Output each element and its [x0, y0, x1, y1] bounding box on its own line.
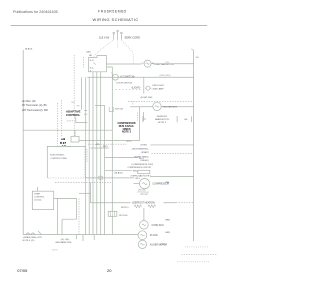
svg-text:07/05: 07/05 [17, 268, 28, 273]
svg-text:-(4)- -(B)-: -(4)- -(B)- [61, 239, 70, 241]
wire h193 [79, 192, 91, 194]
auger motor M6 [138, 240, 146, 248]
svg-text:(BLACK): (BLACK) [115, 172, 124, 175]
ground stubs below bus [76, 235, 94, 241]
svg-text:NOTE: NOTE [52, 249, 58, 251]
svg-text:OVERLOAD NOTE 1: OVERLOAD NOTE 1 [131, 174, 152, 177]
wire dashed vertical x57 [57, 103, 59, 146]
lamp DS1 [144, 85, 152, 94]
capacitor dashed lead [136, 113, 138, 122]
wire dashed freezer sensor [128, 100, 194, 102]
svg-text:B-PLUG: B-PLUG [115, 109, 123, 111]
svg-text:(TEST): (TEST) [141, 144, 148, 146]
wire x112 long drop [107, 67, 112, 235]
svg-text:BLACK: BLACK [25, 48, 33, 51]
middle prong dashed drop [117, 41, 119, 48]
svg-text:(START): (START) [141, 151, 149, 154]
wire h170 [105, 169, 132, 171]
wire drop right cord [132, 54, 134, 64]
compressor motor M3 [133, 179, 149, 189]
wire dashed right 202 [176, 201, 194, 203]
right bus top tick [191, 49, 193, 51]
wire dashed vertical x74 [73, 55, 75, 136]
svg-text:WIRING SCHEMATIC: WIRING SCHEMATIC [93, 17, 139, 22]
dashed corner drop [132, 101, 134, 105]
svg-text:5 6 7 8: 5 6 7 8 [67, 120, 73, 122]
wire h130 [23, 129, 112, 131]
svg-text:FRZ LIGHT: FRZ LIGHT [153, 85, 165, 87]
temperature control box U3 [32, 191, 53, 209]
wire lamp lead [143, 77, 145, 85]
svg-text:SERV CORD: SERV CORD [125, 36, 141, 40]
wire bottom bus [23, 234, 138, 236]
defrost timer box U2 [88, 56, 106, 72]
svg-text:FF FAN: FF FAN [150, 234, 158, 237]
wire h146 [67, 146, 72, 148]
dashed vertical x83 [83, 57, 85, 69]
wire heater run [91, 202, 177, 204]
wire h122 [76, 117, 88, 123]
wire dashed 153 [152, 152, 194, 154]
wire h178 [85, 177, 134, 179]
thermal fuse on bottom bus [26, 231, 41, 235]
fresh food fan motor M5 [138, 231, 147, 240]
pin ticks adaptive control [84, 111, 87, 115]
svg-text:CONTROL PWB: CONTROL PWB [50, 158, 67, 160]
svg-text:GRN: GRN [165, 220, 170, 222]
svg-text:GRN BARE GRN: GRN BARE GRN [55, 241, 72, 244]
wire L step 1 [57, 198, 59, 234]
svg-text:-(LIGHT SW)-: -(LIGHT SW)- [140, 97, 153, 99]
svg-text:CONTROL: CONTROL [66, 113, 81, 117]
wire j2 feed [74, 130, 76, 136]
small node square [99, 176, 102, 179]
wire vertical x81 [80, 77, 82, 110]
svg-text:-(DRAIN LINE)- HTR: -(DRAIN LINE)- HTR [23, 236, 43, 239]
svg-text:Publications for 240461405: Publications for 240461405 [13, 10, 58, 14]
svg-text:FRZ FAN MTR: FRZ FAN MTR [163, 106, 178, 109]
svg-text:-(J2)-: -(J2)- [95, 144, 100, 146]
svg-text:HEATER 115V: HEATER 115V [155, 118, 170, 121]
svg-text:-(DEFROST HEATER)-: -(DEFROST HEATER)- [132, 201, 156, 204]
svg-text:115 V 60: 115 V 60 [99, 36, 110, 40]
svg-text:J3 PLUG: J3 PLUG [119, 215, 128, 217]
svg-text:40W LAMP: 40W LAMP [153, 87, 165, 90]
wire dashed 182 [55, 181, 112, 183]
svg-text:NOTE 2: NOTE 2 [158, 122, 167, 124]
svg-text:ADI Thermostat-(2)- WR: ADI Thermostat-(2)- WR [22, 109, 48, 112]
svg-text:WH: WH [196, 57, 200, 59]
light switch S1 [113, 74, 119, 80]
condenser fan motor M4 [140, 208, 149, 229]
svg-text:WH-2: WH-2 [133, 170, 139, 172]
wire fan to neutral [152, 63, 194, 65]
svg-text:COND FAN: COND FAN [152, 224, 164, 227]
connector box J2 [71, 136, 79, 142]
svg-text:-(LIGHT)-: -(LIGHT)- [131, 87, 141, 89]
connector J3 [108, 211, 117, 216]
label compressor run capacitor (dark block) [117, 122, 135, 134]
wire light circuit [87, 76, 193, 78]
svg-text:4.5M: 4.5M [160, 244, 165, 246]
wire dashed drop x79 [78, 199, 80, 235]
wire h157 [105, 157, 138, 159]
svg-text:(COMPRESSOR 115V): (COMPRESSOR 115V) [132, 164, 154, 166]
svg-text:NOTE 3: NOTE 3 [122, 131, 132, 134]
svg-text:GRN: GRN [165, 232, 170, 234]
svg-text:-(LT SWITCH)-: -(LT SWITCH)- [120, 77, 135, 79]
dotted row under switch [116, 89, 144, 91]
wire h148 [90, 147, 108, 149]
svg-text:CONTROL: CONTROL [34, 197, 45, 199]
bottom right legend dotted rows [185, 246, 208, 248]
wire compressor to relay [150, 175, 194, 177]
svg-text:FRS6R5EMB5: FRS6R5EMB5 [98, 10, 127, 14]
svg-text:COMPRESSOR CIRCUIT: COMPRESSOR CIRCUIT [128, 167, 153, 169]
center vertical wires [85, 77, 87, 234]
wire freezer fan feed [130, 106, 194, 108]
svg-text:NOTE 4 -(2)-: NOTE 4 -(2)- [23, 240, 35, 242]
wire h140 [79, 140, 140, 142]
svg-text:WH: WH [166, 182, 170, 184]
svg-text:Air Filter -(B): Air Filter -(B) [22, 100, 36, 103]
evaporator fan motor M1 [142, 60, 154, 67]
label sensor row [155, 116, 170, 124]
svg-text:DEFROST: DEFROST [157, 116, 168, 118]
svg-text:PF Thermostat -(2)- BK: PF Thermostat -(2)- BK [22, 104, 47, 107]
wire temp control feed [54, 197, 77, 199]
svg-text:ELECTRONIC: ELECTRONIC [50, 155, 65, 157]
wire left bus L1 [22, 50, 24, 235]
svg-text:WH: WH [166, 62, 170, 64]
connector pins dark cluster [60, 138, 66, 146]
dashed enclosure electronic control [47, 146, 85, 178]
svg-text:(COLD): (COLD) [34, 200, 41, 202]
resistor R2 [148, 205, 156, 208]
svg-text:NOTE 5: NOTE 5 [121, 207, 129, 209]
svg-text:DOOR SWITCH: DOOR SWITCH [116, 82, 132, 84]
wire drop x139 [139, 107, 141, 141]
wire dashed h144 [88, 143, 127, 145]
svg-text:N.O.: N.O. [90, 60, 95, 62]
sensor row ticks [143, 116, 192, 122]
wire cord lead right [122, 41, 134, 54]
capacitor lead [144, 112, 147, 121]
wire dashed vertical x61 [61, 100, 63, 137]
svg-text:-(RUN WINDING)-: -(RUN WINDING)- [132, 149, 149, 151]
ptc relay box K1 [138, 170, 150, 173]
svg-text:(BK): (BK) [87, 52, 91, 54]
svg-text:N.C.: N.C. [90, 67, 95, 69]
wire h105 [95, 104, 105, 106]
header rule [11, 24, 208, 26]
wire right 145 [151, 144, 194, 146]
dashed vertical x87 [86, 149, 88, 162]
wire evaporator fan feed [106, 63, 141, 65]
wire cord lead left [94, 41, 114, 57]
wire control tick [36, 187, 38, 191]
svg-text:20: 20 [107, 268, 112, 273]
wire right bus N [193, 51, 195, 242]
freezer fan motor M2 [153, 102, 161, 110]
service cord plug P1 [113, 30, 122, 40]
svg-text:OR-2: OR-2 [135, 178, 141, 180]
svg-text:(WH) (WH): (WH) (WH) [160, 75, 171, 77]
resistor R1 [134, 205, 142, 208]
overload protector RT1 [137, 190, 149, 195]
bracket on x112 [109, 107, 113, 112]
svg-text:TEMP: TEMP [34, 194, 40, 196]
wire L step 2 [62, 198, 77, 234]
